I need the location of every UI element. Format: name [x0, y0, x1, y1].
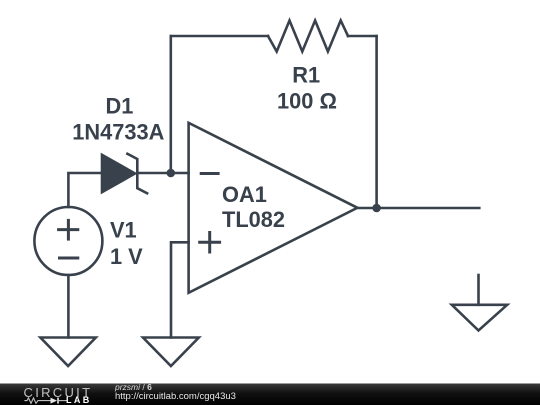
wire output: [357, 207, 479, 210]
op-amp minus input marker: [200, 172, 220, 175]
footer logo waveform resistor: [24, 398, 50, 403]
wire feedback left vertical (node A to top): [170, 36, 173, 173]
svg-text:TL082: TL082: [222, 207, 285, 232]
wire V1 bottom to ground: [67, 275, 70, 338]
svg-text:http://circuitlab.com/cgq43u3: http://circuitlab.com/cgq43u3: [115, 391, 236, 402]
svg-text:D1: D1: [105, 94, 133, 119]
node output junction dot: [372, 204, 381, 213]
wire non-inverting input to ground stub: [171, 242, 189, 337]
V1 minus marker: [58, 257, 79, 260]
svg-text:1N4733A: 1N4733A: [72, 119, 164, 144]
svg-text:R1: R1: [292, 62, 320, 87]
diode D1 body (zener): [102, 154, 147, 194]
V1 plus marker: [57, 219, 79, 241]
svg-text:V1: V1: [110, 218, 137, 243]
wire R1 right to corner: [348, 35, 377, 38]
ground right floating: [452, 275, 507, 331]
node A junction dot (inverting input): [167, 169, 176, 178]
svg-text:1 V: 1 V: [110, 244, 143, 269]
ground under V1: [40, 338, 95, 367]
wire diode cathode to inverting input: [137, 172, 188, 175]
voltage source V1 circle: [34, 207, 102, 275]
ground under non-inverting input: [143, 338, 199, 367]
op-amp OA1 triangle: [189, 123, 358, 293]
wire feedback top horizontal to R1: [171, 35, 268, 38]
op-amp plus input marker: [198, 231, 221, 254]
footer bar: [0, 384, 540, 405]
wire V1 top to diode anode: [68, 173, 102, 207]
svg-text:LAB: LAB: [66, 395, 92, 405]
footer logo wire to LAB: [59, 400, 67, 402]
resistor R1: [268, 21, 348, 52]
footer logo diode glyph: [51, 398, 59, 404]
wire feedback right vertical down to output node: [375, 36, 378, 208]
svg-text:100 Ω: 100 Ω: [277, 89, 337, 114]
svg-text:OA1: OA1: [222, 182, 267, 207]
